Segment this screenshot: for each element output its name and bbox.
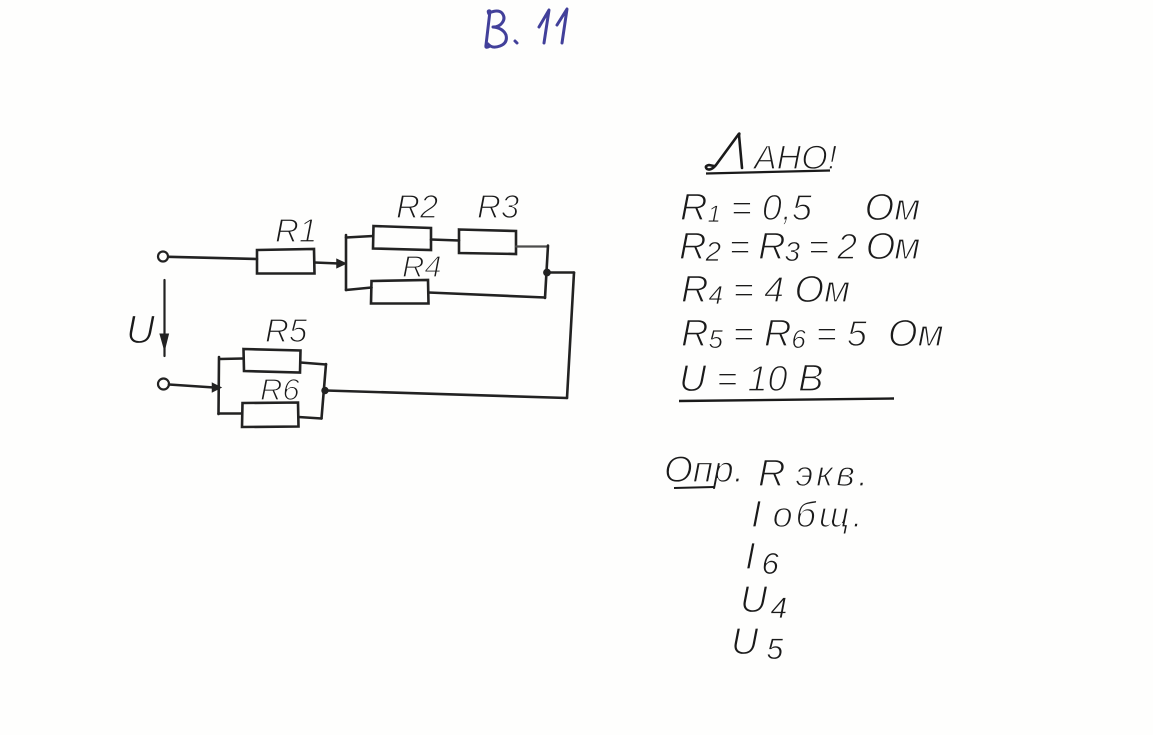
wire R1 to node A — [315, 263, 340, 264]
wire R4 to right vertical — [429, 293, 546, 298]
wire right vertical of R5/R6 group — [322, 364, 327, 419]
wire right vertical of R2/R4 group — [545, 246, 548, 299]
heading underline — [674, 487, 714, 488]
terminal T2 — [158, 379, 169, 390]
svg-text:R3: R3 — [477, 188, 520, 225]
block underline — [679, 399, 894, 402]
resistor R5 — [244, 349, 301, 373]
wire to R6 — [219, 412, 243, 415]
wire to R2 — [346, 236, 373, 238]
wire R3 to right vertical — [516, 245, 548, 247]
wire node B stub right — [548, 271, 574, 274]
svg-text:U = 10 В: U = 10 В — [679, 358, 823, 400]
node D junction dot — [322, 387, 328, 393]
wire to R4 — [346, 288, 372, 291]
wire left vertical of R5/R6 group — [217, 357, 220, 414]
resistor R6 — [242, 403, 299, 428]
wire left vertical of R2/R4 group — [345, 235, 348, 290]
wire R5 to right vertical — [301, 363, 327, 365]
heading Dano — [706, 134, 742, 170]
svg-text:R2: R2 — [396, 188, 438, 225]
resistor R2 — [373, 226, 431, 250]
wire long right vertical down — [567, 273, 574, 399]
node C junction arrow — [213, 384, 221, 392]
U arrowhead — [160, 334, 169, 350]
svg-text:R4 = 4 Ом: R4 = 4 Ом — [681, 269, 850, 311]
terminal T1 — [158, 252, 168, 262]
svg-text:Rэкв.: Rэкв. — [758, 453, 871, 495]
wire R6 to right vertical — [299, 417, 322, 419]
find text block — [664, 449, 871, 666]
node B junction dot — [544, 269, 551, 276]
wire T1 to R1 — [169, 257, 258, 259]
wire to R5 — [220, 357, 244, 360]
circuit component labels — [126, 188, 520, 407]
wire T2 to node C — [169, 385, 214, 388]
wire R2 to R3 — [431, 240, 459, 241]
U arrow line — [163, 280, 165, 356]
wire long bottom horizontal to R5/R6 node — [326, 391, 567, 399]
svg-text:Опр.: Опр. — [664, 449, 744, 490]
svg-text:R4: R4 — [402, 249, 442, 284]
node A junction arrow — [337, 260, 346, 268]
resistor R3 — [459, 230, 516, 255]
given-data text block — [679, 134, 944, 402]
svg-text:R1: R1 — [275, 212, 317, 249]
resistor R1 — [257, 249, 315, 274]
resistor R4 — [371, 280, 429, 304]
heading underline — [706, 171, 830, 174]
svg-text:R5: R5 — [265, 312, 308, 349]
title B. 11 (blue pen) — [486, 9, 567, 47]
svg-text:R6: R6 — [260, 372, 300, 407]
svg-text:U: U — [126, 308, 156, 352]
